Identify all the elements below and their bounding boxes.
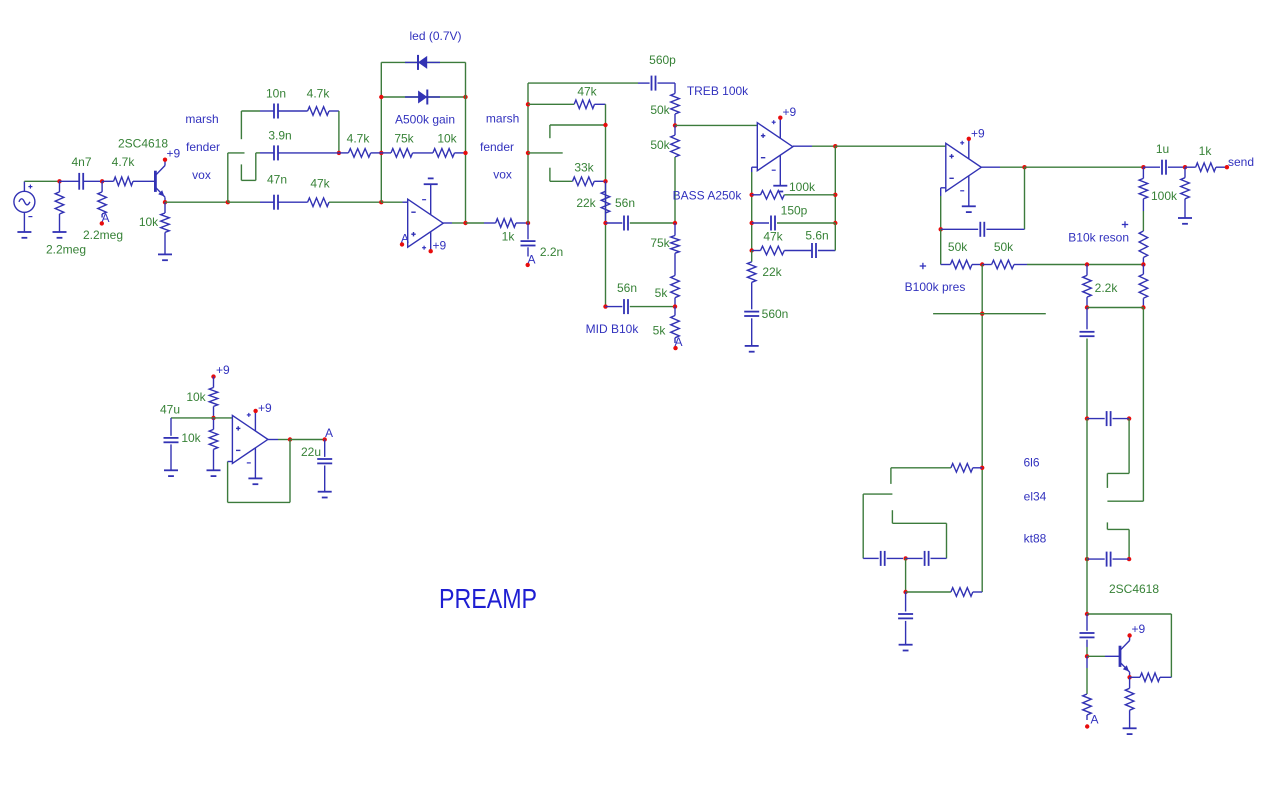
svg-text:2.2k: 2.2k	[1095, 281, 1119, 295]
svg-text:fender: fender	[186, 140, 220, 154]
svg-text:56n: 56n	[615, 196, 635, 210]
svg-text:4.7k: 4.7k	[307, 87, 331, 101]
svg-text:50k: 50k	[994, 240, 1014, 254]
svg-text:75k: 75k	[394, 132, 414, 146]
svg-text:47n: 47n	[267, 173, 287, 187]
svg-text:100k: 100k	[789, 180, 816, 194]
svg-text:kt88: kt88	[1024, 532, 1047, 546]
svg-text:vox: vox	[493, 168, 512, 182]
svg-text:A500k gain: A500k gain	[395, 113, 455, 127]
svg-text:TREB 100k: TREB 100k	[687, 84, 749, 98]
svg-text:33k: 33k	[574, 161, 594, 175]
svg-text:2.2n: 2.2n	[540, 245, 563, 259]
svg-text:5k: 5k	[653, 324, 667, 338]
svg-text:150p: 150p	[781, 204, 808, 218]
svg-text:B100k pres: B100k pres	[905, 280, 966, 294]
svg-text:47k: 47k	[310, 177, 330, 191]
svg-text:A: A	[1091, 713, 1099, 727]
svg-text:56n: 56n	[617, 281, 637, 295]
svg-text:2.2meg: 2.2meg	[83, 228, 123, 242]
svg-text:22k: 22k	[762, 265, 782, 279]
svg-text:2.2meg: 2.2meg	[46, 243, 86, 257]
svg-text:MID B10k: MID B10k	[586, 322, 640, 336]
svg-text:47k: 47k	[577, 85, 597, 99]
svg-text:+9: +9	[1132, 622, 1146, 636]
svg-text:4n7: 4n7	[71, 155, 91, 169]
svg-text:100k: 100k	[1151, 189, 1178, 203]
svg-text:1k: 1k	[502, 229, 516, 243]
svg-text:el34: el34	[1024, 490, 1047, 504]
svg-text:50k: 50k	[650, 138, 670, 152]
svg-text:10n: 10n	[266, 87, 286, 101]
svg-text:75k: 75k	[650, 236, 670, 250]
svg-text:2SC4618: 2SC4618	[118, 137, 168, 151]
svg-text:10k: 10k	[139, 215, 159, 229]
svg-text:1u: 1u	[1156, 142, 1169, 156]
svg-text:send: send	[1228, 155, 1254, 169]
svg-text:+9: +9	[258, 401, 272, 415]
svg-text:+9: +9	[971, 127, 985, 141]
svg-text:1k: 1k	[1199, 144, 1213, 158]
svg-text:+9: +9	[433, 239, 447, 253]
svg-text:3.9n: 3.9n	[268, 129, 291, 143]
svg-text:4.7k: 4.7k	[112, 155, 136, 169]
svg-text:led (0.7V): led (0.7V)	[409, 29, 461, 43]
svg-text:10k: 10k	[181, 431, 201, 445]
svg-text:47k: 47k	[763, 230, 783, 244]
svg-text:47u: 47u	[160, 403, 180, 417]
svg-text:10k: 10k	[186, 390, 206, 404]
svg-text:marsh: marsh	[486, 112, 519, 126]
svg-text:BASS A250k: BASS A250k	[673, 189, 743, 203]
svg-text:marsh: marsh	[185, 112, 218, 126]
svg-text:+9: +9	[167, 147, 181, 161]
svg-text:22u: 22u	[301, 445, 321, 459]
svg-text:560p: 560p	[649, 53, 676, 67]
svg-text:50k: 50k	[948, 240, 968, 254]
svg-text:5.6n: 5.6n	[805, 229, 828, 243]
svg-text:fender: fender	[480, 140, 514, 154]
svg-text:560n: 560n	[762, 307, 789, 321]
svg-text:6l6: 6l6	[1023, 456, 1039, 470]
svg-text:+9: +9	[783, 105, 797, 119]
svg-text:4.7k: 4.7k	[347, 132, 371, 146]
svg-text:2SC4618: 2SC4618	[1109, 582, 1159, 596]
svg-text:5k: 5k	[655, 286, 669, 300]
svg-text:10k: 10k	[437, 132, 457, 146]
svg-text:PREAMP: PREAMP	[439, 583, 537, 614]
svg-text:50k: 50k	[650, 103, 670, 117]
svg-text:+9: +9	[216, 363, 230, 377]
svg-text:22k: 22k	[576, 196, 596, 210]
svg-text:vox: vox	[192, 168, 211, 182]
svg-text:B10k reson: B10k reson	[1068, 231, 1129, 245]
